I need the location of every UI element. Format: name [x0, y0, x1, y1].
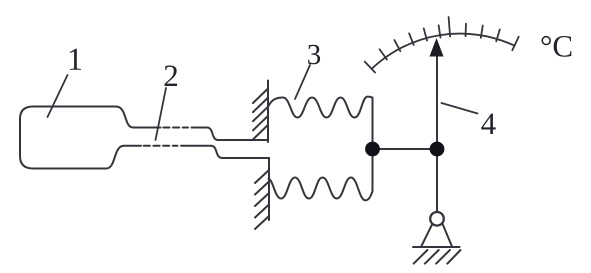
- capillary tube 2 top solid segment with step to wall: [192, 128, 269, 141]
- pointer arrowhead: [430, 38, 444, 57]
- unit label °C: [541, 36, 550, 45]
- capillary tube 2 bottom dashed segment: [144, 145, 178, 147]
- leader line for label 2: [156, 88, 167, 140]
- leader line for label 3: [295, 65, 310, 99]
- capillary tube 2 top dashed segment: [163, 127, 188, 129]
- joint dot on bellows rod: [365, 142, 380, 157]
- pivot ground line: [413, 246, 460, 248]
- joint dot on pointer lever: [430, 142, 445, 157]
- label 1: [70, 49, 81, 70]
- pointer lever 4: [436, 55, 438, 212]
- bulb 1 (sensing bulb with neck): [20, 107, 161, 169]
- pivot ground hatching: [414, 250, 461, 264]
- link wire between joints: [373, 148, 438, 150]
- scale arc: [372, 34, 515, 69]
- bellows 3 top corrugated line: [269, 97, 373, 118]
- scale tick marks: [365, 17, 519, 73]
- bellows end rod: [372, 98, 374, 192]
- label 2: [165, 65, 177, 86]
- bellows 3 bottom corrugated line: [269, 178, 373, 201]
- wall lower segment: [255, 158, 269, 229]
- pivot support circle: [430, 212, 444, 226]
- capillary tube 2 bottom solid segment with step to wall: [181, 146, 269, 158]
- leader line for label 1: [48, 75, 68, 117]
- pivot support triangle legs: [421, 224, 432, 247]
- wall upper segment: [253, 81, 268, 143]
- label 3: [308, 45, 320, 64]
- leader line for label 4: [442, 103, 478, 114]
- label 4: [481, 114, 495, 134]
